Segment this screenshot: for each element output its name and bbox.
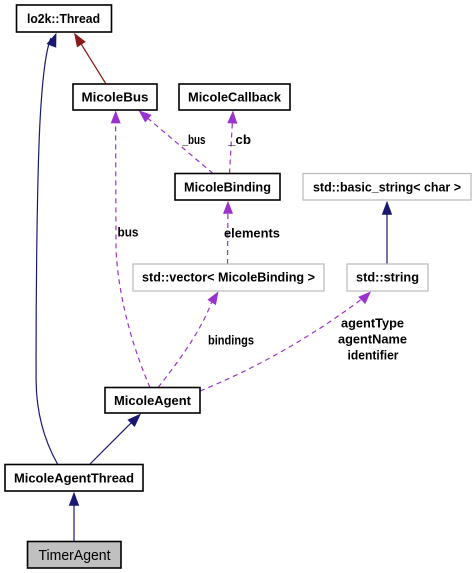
inheritance edge MicoleAgentThread to MicoleAgent (blue line) [90,414,141,465]
class node MicoleAgent [105,388,200,414]
usage edge MicoleBinding to MicoleBus, member _bus (purple dashed line) [139,110,214,173]
svg-text:std::vector< MicoleBinding >: std::vector< MicoleBinding > [142,270,315,285]
svg-text:MicoleAgent: MicoleAgent [114,393,192,408]
svg-text:bus: bus [118,226,139,240]
class node lo2k::Thread [17,5,112,32]
usage edge MicoleAgent to MicoleBus, member bus (purple dashed curve) [111,110,150,387]
usage edge MicoleBinding to MicoleCallback, member _cb (purple dashed line) [227,110,237,173]
svg-text:agentName: agentName [338,333,407,347]
class node std::vector< MicoleBinding > (external, gray border) [133,264,324,291]
svg-text:lo2k::Thread: lo2k::Thread [27,11,100,26]
inheritance edge TimerAgent to MicoleAgentThread (blue line) [69,492,79,542]
svg-text:MicoleCallback: MicoleCallback [188,90,282,105]
svg-text:identifier: identifier [348,349,399,363]
inheritance edge MicoleBus to lo2k::Thread (dark red line) [74,33,106,84]
class node std::string (external, gray border) [347,264,428,291]
svg-text:bindings: bindings [208,334,254,348]
class node TimerAgent (focus node, gray fill) [28,542,122,569]
inheritance edge MicoleAgentThread to lo2k::Thread (blue curve) [36,33,57,464]
usage edge MicoleAgent to std::string, members agentType agentName identifier (purple dashed curve) [200,291,371,391]
svg-text:MicoleBus: MicoleBus [82,90,149,105]
svg-text:elements: elements [224,227,280,241]
svg-text:std::string: std::string [356,270,419,285]
class node MicoleBus [73,84,157,110]
svg-text:_bus: _bus [182,133,206,147]
usage edge MicoleAgent to std::vector, member bindings (purple dashed curve) [158,291,219,387]
class node MicoleAgentThread [5,465,143,492]
class node MicoleCallback [179,84,290,110]
svg-text:MicoleAgentThread: MicoleAgentThread [14,471,134,486]
inheritance edge std::string to std::basic_string (blue line) [382,201,392,264]
class node std::basic_string< char > (external, gray border) [303,174,471,201]
svg-text:agentType: agentType [341,317,404,331]
usage edge std::vector to MicoleBinding, member elements (purple dashed line) [223,201,233,264]
class node MicoleBinding [175,174,280,201]
svg-text:MicoleBinding: MicoleBinding [184,180,271,195]
svg-text:std::basic_string< char >: std::basic_string< char > [313,180,461,195]
svg-text:_cb: _cb [227,133,251,147]
svg-text:TimerAgent: TimerAgent [39,548,111,564]
